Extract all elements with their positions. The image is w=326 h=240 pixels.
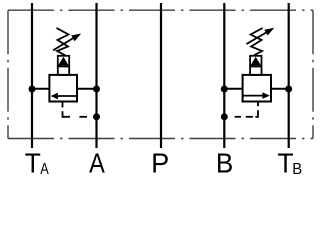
- junction dot B: [221, 86, 228, 93]
- wire valve 1 inlet (TA side): [32, 88, 49, 90]
- relief valve 2 body: [243, 75, 271, 102]
- valve 1 pilot cartridge: [57, 56, 69, 75]
- valve 1 pilot/drain dashed line: [63, 102, 88, 117]
- sandwich plate boundary top: [8, 9, 313, 11]
- sandwich plate boundary right: [312, 10, 314, 138]
- wire valve 1 outlet (A side): [77, 88, 97, 90]
- port line B: [223, 3, 225, 148]
- port line TA: [31, 3, 33, 148]
- valve 2 adjustable spring: [247, 28, 275, 56]
- svg-text:A: A: [40, 161, 49, 179]
- port line A: [95, 3, 97, 148]
- sandwich plate boundary left: [7, 10, 9, 138]
- valve 2 pilot/drain dashed line: [235, 102, 258, 117]
- sandwich plate boundary bottom: [8, 138, 313, 140]
- label TB: [278, 147, 303, 179]
- valve 2 pilot cartridge: [250, 56, 262, 75]
- junction dot drain B: [221, 113, 228, 120]
- valve 1 flow arrow: [51, 93, 77, 100]
- port line TB: [288, 3, 290, 148]
- junction dot TA: [29, 86, 36, 93]
- port line P: [160, 3, 162, 148]
- valve 2 flow arrow: [243, 92, 270, 99]
- wire valve 2 inlet (B side): [224, 88, 242, 90]
- svg-text:A: A: [89, 149, 105, 179]
- valve 1 adjustable spring: [53, 28, 81, 56]
- svg-text:B: B: [216, 148, 233, 179]
- junction dot A: [93, 86, 100, 93]
- label TA: [25, 147, 49, 179]
- svg-text:T: T: [25, 147, 41, 179]
- wire valve 2 outlet (TB side): [271, 88, 289, 90]
- junction dot TB: [285, 86, 292, 93]
- svg-text:P: P: [151, 147, 169, 178]
- junction dot drain A: [93, 113, 100, 120]
- svg-text:T: T: [278, 147, 294, 179]
- relief valve 1 body: [49, 75, 77, 102]
- svg-text:B: B: [292, 161, 302, 179]
